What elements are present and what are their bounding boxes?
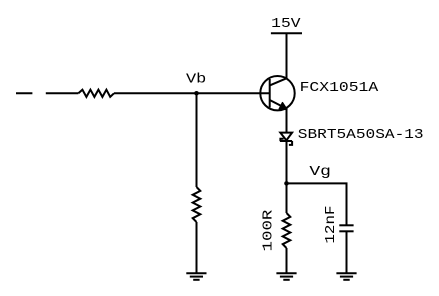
resistor (vertical from Vb, unlabeled) [193, 187, 201, 222]
wire input stub (left dash) [16, 92, 32, 94]
ground (left) [186, 273, 206, 280]
wire resistor to ground [196, 222, 198, 273]
node Vg junction dot [284, 181, 289, 186]
svg-text:SBRT5A50SA-13: SBRT5A50SA-13 [298, 127, 424, 143]
wire diode to node Vg [286, 141, 288, 183]
ground (middle, under 100R) [276, 273, 296, 280]
resistor (horizontal, unlabeled) [78, 90, 114, 97]
power 15V rail bar [271, 32, 302, 34]
resistor R1 100R [283, 213, 291, 248]
svg-text:Vb: Vb [186, 72, 206, 88]
wire resistor 100R to ground [286, 248, 288, 273]
wire resistor to transistor base through node Vb [114, 92, 270, 94]
wire collector to 15V rail [286, 33, 288, 78]
svg-text:Vg: Vg [309, 164, 331, 180]
svg-text:100R: 100R [260, 209, 276, 252]
wire node Vg down to resistor 100R [286, 183, 288, 213]
svg-text:FCX1051A: FCX1051A [300, 80, 379, 96]
svg-text:12nF: 12nF [323, 206, 339, 244]
wire node Vg to capacitor (right then down) [287, 183, 347, 225]
diode D1 SBRT5A50SA-13 (schottky) [280, 133, 292, 145]
node Vb junction dot [194, 91, 199, 96]
transistor Q1 FCX1051A [260, 76, 294, 110]
wire node Vb down to resistor [196, 93, 198, 187]
wire emitter to diode [286, 109, 288, 133]
capacitor C1 12nF plates [339, 225, 353, 231]
wire from input to resistor [46, 92, 79, 94]
svg-text:15V: 15V [271, 16, 301, 32]
ground (right, under capacitor) [336, 273, 356, 280]
wire capacitor to ground [346, 231, 348, 273]
